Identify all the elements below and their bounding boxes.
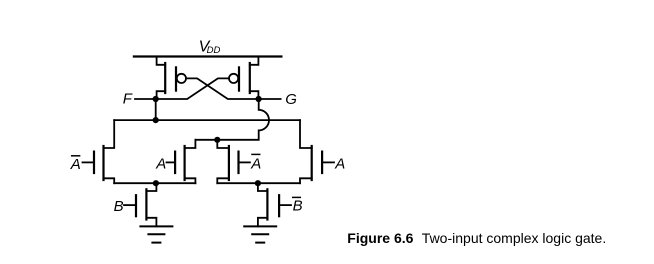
svg-text:A: A <box>334 156 345 173</box>
svg-text:A: A <box>155 156 166 173</box>
svg-text:DD: DD <box>207 45 221 56</box>
svg-text:B: B <box>293 198 303 215</box>
svg-text:B: B <box>114 198 124 215</box>
svg-text:A: A <box>250 155 261 172</box>
svg-text:A: A <box>70 156 81 173</box>
svg-text:Two-input complex logic gate.: Two-input complex logic gate. <box>422 230 606 246</box>
svg-text:Figure 6.6: Figure 6.6 <box>347 230 413 246</box>
svg-text:G: G <box>285 91 297 108</box>
svg-text:F: F <box>123 91 133 108</box>
